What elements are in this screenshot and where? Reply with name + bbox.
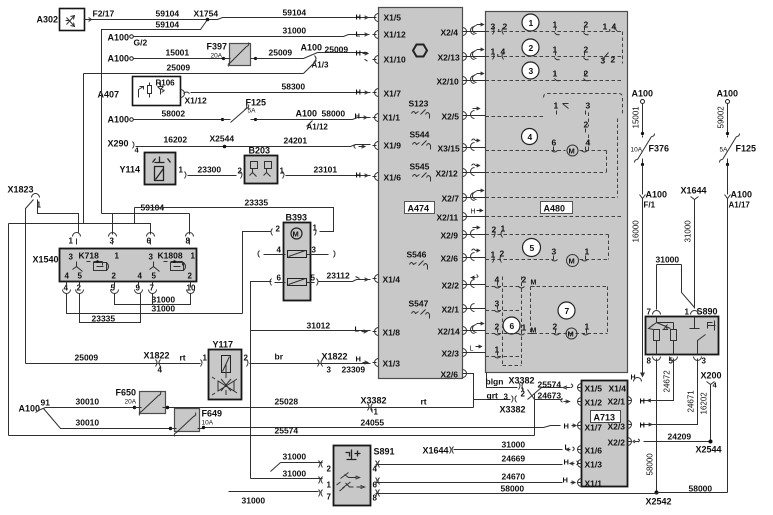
function circle 6 (503, 317, 520, 334)
svg-text:3: 3 (149, 253, 154, 262)
dashed row X2/7 (486, 119, 618, 198)
svg-text:58002: 58002 (162, 109, 186, 119)
svg-text:2: 2 (529, 43, 534, 53)
wire 25028/rt row (168, 400, 474, 408)
svg-text:G/2: G/2 (134, 38, 148, 48)
wire A100 A1/17 (727, 165, 729, 195)
svg-text:X2/10: X2/10 (437, 77, 459, 87)
svg-text:6: 6 (277, 274, 282, 283)
pin X2/4 (441, 28, 469, 38)
pin X1/3 (373, 359, 401, 369)
wire 30010 a (46, 407, 135, 409)
svg-text:59002: 59002 (717, 106, 726, 129)
row 6a (486, 286, 522, 288)
wire 15001 (134, 58, 224, 60)
svg-text:L: L (355, 325, 360, 334)
contact symbols (337, 473, 365, 492)
svg-text:F397: F397 (207, 42, 228, 52)
svg-text:grt: grt (487, 391, 499, 401)
pin X2/9 (441, 231, 469, 241)
dashed row 3 (486, 80, 623, 82)
module A302 (37, 9, 85, 31)
svg-text:24669: 24669 (502, 454, 526, 464)
wire 59104 to X1/5 (91, 18, 376, 20)
svg-text:A100: A100 (301, 43, 323, 53)
svg-text:H: H (356, 88, 361, 97)
wire 58000 bottom row (376, 493, 657, 495)
svg-text:X1/7: X1/7 (585, 423, 603, 433)
X2/2 out symbol (633, 439, 640, 443)
svg-text:X2/3: X2/3 (442, 349, 460, 359)
svg-text:X1/5: X1/5 (585, 384, 603, 394)
connector X3382 pin3 (512, 396, 517, 403)
motor M4 (567, 145, 578, 156)
svg-text:3: 3 (552, 247, 557, 257)
svg-text:24672: 24672 (663, 370, 672, 393)
svg-text:5: 5 (152, 272, 157, 281)
row 5 top (486, 235, 609, 260)
svg-text:X2/2: X2/2 (608, 438, 626, 448)
svg-text:31000: 31000 (656, 255, 680, 265)
arrow X1/2 (561, 398, 570, 403)
svg-text:X3382: X3382 (500, 405, 526, 415)
fuse F649 (175, 409, 223, 432)
svg-text:X2/3: X2/3 (608, 422, 626, 432)
wire 25574 long row (9, 435, 535, 437)
wire 30010 b (44, 409, 171, 429)
svg-text:6: 6 (552, 138, 557, 148)
svg-text:24670: 24670 (502, 472, 526, 482)
svg-text:31000: 31000 (242, 496, 266, 506)
pin X1/7 (373, 89, 402, 99)
svg-text:X1822: X1822 (322, 352, 348, 362)
svg-text:rt: rt (180, 353, 186, 363)
svg-text:L: L (356, 30, 361, 39)
svg-text:15001: 15001 (632, 106, 641, 129)
svg-text:2: 2 (521, 390, 526, 399)
resistor right (671, 330, 677, 341)
pin X2/11 (437, 213, 469, 223)
svg-text:X1823: X1823 (8, 185, 34, 195)
svg-text:H: H (356, 49, 361, 58)
svg-text:16202: 16202 (164, 135, 188, 145)
svg-text:F650: F650 (116, 388, 137, 398)
function circle 5 (523, 239, 541, 257)
svg-text:F125: F125 (736, 144, 757, 154)
svg-text:H: H (356, 355, 361, 364)
svg-text:2: 2 (522, 275, 527, 285)
svg-text:23335: 23335 (245, 198, 269, 208)
svg-text:X1754: X1754 (194, 9, 219, 19)
svg-text:F649: F649 (202, 409, 223, 419)
frame line left (9, 208, 151, 436)
svg-text:1: 1 (685, 308, 690, 317)
svg-text:X2544: X2544 (696, 445, 722, 455)
svg-text:A100: A100 (646, 190, 668, 200)
pin X2/10 (437, 77, 469, 87)
wire 24672 pin5 (641, 359, 674, 401)
svg-text:16202: 16202 (700, 392, 709, 415)
dashed row 1 (486, 31, 623, 33)
pin X2/8 (441, 370, 469, 380)
svg-text:X2/7: X2/7 (442, 194, 460, 204)
valve Y117 (209, 340, 242, 400)
svg-text:X1540: X1540 (33, 255, 59, 265)
wire X1823 down (26, 200, 79, 364)
switch S123 (409, 99, 430, 119)
svg-text:4: 4 (586, 138, 591, 148)
pin X2/7 (442, 194, 469, 204)
svg-text:59104: 59104 (156, 20, 180, 30)
wire blgn from A480 (487, 373, 518, 388)
svg-text:A1/3: A1/3 (312, 61, 329, 70)
wire X2/9-A480 (469, 226, 486, 238)
svg-text:B393: B393 (286, 213, 308, 223)
svg-text:S546: S546 (407, 250, 427, 260)
svg-text:H: H (640, 421, 645, 430)
svg-text:25009: 25009 (167, 63, 191, 73)
svg-text:7: 7 (647, 308, 652, 317)
wire 58000 bottom (657, 492, 728, 494)
svg-text:A407: A407 (98, 90, 120, 100)
wire X2/14-A480 (469, 322, 486, 334)
svg-text:1: 1 (603, 22, 608, 32)
svg-text:Y114: Y114 (120, 165, 141, 175)
svg-text:25009: 25009 (75, 353, 99, 363)
svg-text:4: 4 (138, 272, 143, 281)
svg-text:K718: K718 (79, 251, 100, 261)
switch S545 (410, 162, 431, 182)
svg-text:A100: A100 (108, 33, 130, 43)
svg-text:X200: X200 (701, 371, 722, 381)
svg-text:4: 4 (501, 47, 506, 57)
svg-text:F/1: F/1 (644, 201, 656, 210)
wire 23112 to X1/4 (319, 280, 371, 282)
svg-text:X1/9: X1/9 (384, 141, 402, 151)
svg-text:25028: 25028 (275, 397, 299, 407)
pin X1/4 (373, 275, 401, 285)
pin X2/5 (442, 112, 469, 122)
wire X2/10-A480 (469, 72, 486, 84)
svg-text:25574: 25574 (275, 426, 299, 436)
row 6d (486, 356, 522, 358)
svg-text:10A: 10A (631, 147, 643, 154)
fuse F397 symbol (224, 43, 256, 67)
wire grt from A474 X2/8 (469, 374, 511, 400)
svg-text:58000: 58000 (689, 484, 713, 494)
function circle 3 (522, 62, 539, 79)
svg-text:3: 3 (491, 22, 496, 32)
wire X3/15-A480 (469, 139, 486, 151)
wire 59104 branch (102, 20, 208, 214)
svg-text:3: 3 (586, 101, 591, 111)
svg-text:X2/13: X2/13 (438, 53, 460, 63)
svg-text:X2/5: X2/5 (442, 112, 460, 122)
svg-text:H: H (355, 112, 360, 121)
svg-text:H: H (563, 476, 568, 485)
svg-text:31000: 31000 (684, 220, 693, 243)
wire 23101 to X1/6 (286, 175, 371, 177)
svg-text:31012: 31012 (307, 321, 331, 331)
wire 59104 vertical (102, 214, 190, 235)
wire 24209 (644, 441, 711, 443)
wire 31000 to X1/12 (134, 35, 370, 37)
wire 24673 to X1/2 (528, 394, 563, 400)
svg-text:23101: 23101 (314, 165, 338, 175)
svg-text:A100: A100 (108, 115, 130, 125)
wire X2/2-A480 (469, 275, 486, 288)
function 6 dashed frame (503, 277, 522, 366)
svg-text:X1/3: X1/3 (585, 460, 603, 470)
svg-text:4: 4 (65, 272, 70, 281)
wire 23335 B393 (135, 208, 334, 232)
svg-text:3: 3 (702, 357, 707, 366)
wire A100 F/1 (642, 165, 644, 195)
svg-text:X1/12: X1/12 (384, 30, 406, 40)
wire 58000 right vertical (727, 199, 729, 493)
svg-text:1: 1 (115, 252, 120, 261)
wire X2/1-A480 (469, 304, 486, 312)
pin X2/1 (442, 305, 469, 315)
blower B393 (284, 213, 311, 301)
wire 25574 to X1/5 (528, 388, 563, 400)
svg-text:X2/1: X2/1 (608, 397, 626, 407)
pin X2/13 (438, 53, 469, 63)
control unit A474 (379, 8, 463, 379)
wire 24669 to X1/3 (376, 464, 563, 466)
svg-text:A100: A100 (108, 54, 130, 64)
svg-text:59104: 59104 (156, 9, 180, 19)
splice X2542 (655, 491, 659, 495)
arrow X1/4 (356, 277, 369, 282)
wire 31000 a (115, 294, 191, 305)
svg-text:S544: S544 (410, 130, 430, 140)
wire X2/12-A480 (469, 164, 486, 176)
wire X2/4-A480 (469, 23, 486, 35)
control unit A713 (582, 381, 628, 487)
svg-text:X1/6: X1/6 (585, 446, 603, 456)
wire 16202 X200 (710, 385, 712, 442)
wire 31012 to X1/8 (251, 330, 371, 332)
svg-text:25574: 25574 (538, 380, 562, 390)
svg-text:H: H (564, 458, 569, 467)
pin X1/10 (373, 55, 406, 65)
svg-text:1: 1 (374, 408, 379, 417)
svg-text:X1/12: X1/12 (185, 96, 207, 106)
function circle 2 (522, 39, 539, 56)
svg-text:L: L (470, 346, 474, 353)
switch S544 (410, 130, 431, 150)
seat icon (346, 450, 361, 460)
svg-text:H: H (471, 209, 476, 216)
svg-text:M: M (531, 280, 537, 287)
valve Y114 (120, 153, 176, 185)
svg-text:25009: 25009 (269, 48, 293, 58)
svg-text:H: H (356, 13, 361, 22)
svg-text:X2/14: X2/14 (438, 327, 460, 337)
svg-text:3: 3 (504, 393, 509, 402)
wire 31000 S891 pin2 (251, 331, 323, 479)
svg-text:M: M (568, 330, 574, 339)
motor M (291, 228, 302, 239)
switch S547 (409, 299, 430, 319)
svg-text:1: 1 (491, 47, 496, 57)
svg-text:Y117: Y117 (213, 340, 234, 350)
svg-text:2: 2 (276, 225, 281, 234)
svg-text:24209: 24209 (668, 432, 692, 442)
svg-text:91: 91 (41, 398, 51, 408)
motor M7 (566, 328, 577, 339)
wire X2/6-A480 (469, 249, 486, 261)
svg-text:4: 4 (528, 132, 533, 142)
svg-text:X290: X290 (108, 139, 129, 149)
pin X1/8 (373, 328, 401, 338)
svg-text:1: 1 (554, 101, 559, 111)
module A407 / R106 (98, 77, 181, 106)
svg-text:30010: 30010 (76, 397, 100, 407)
pin X3/15 (438, 144, 469, 154)
svg-text:1: 1 (69, 237, 74, 246)
svg-text:31000: 31000 (283, 469, 307, 479)
pin X1/12 (373, 30, 406, 40)
svg-text:3: 3 (529, 66, 534, 76)
svg-text:20A: 20A (125, 399, 137, 406)
relay contacts (649, 317, 671, 330)
dashed row 2 (486, 32, 623, 64)
svg-text:1: 1 (327, 481, 332, 490)
svg-text:24671: 24671 (687, 390, 696, 413)
svg-text:A480: A480 (544, 204, 566, 214)
svg-text:1: 1 (522, 323, 527, 333)
wire X2/5-A480 (469, 107, 486, 119)
fuse F649 symbol (171, 413, 204, 437)
wire pin7 down (152, 294, 154, 305)
wire br X1822 row (250, 363, 371, 365)
wire 25009 lower (84, 61, 317, 224)
svg-text:H: H (564, 422, 569, 431)
svg-text:31000: 31000 (283, 26, 307, 36)
svg-text:2: 2 (188, 272, 193, 281)
svg-text:br: br (275, 352, 284, 362)
svg-text:X1644: X1644 (681, 186, 707, 196)
svg-text:2: 2 (503, 22, 508, 32)
svg-text:23309: 23309 (342, 365, 366, 375)
svg-text:S547: S547 (409, 299, 429, 309)
svg-text:5: 5 (311, 274, 316, 283)
fuse F650 symbol (135, 392, 168, 416)
svg-text:M: M (569, 257, 575, 266)
row 6b (486, 310, 522, 312)
pin X2/14 (438, 327, 469, 337)
wire 31000 X1644 down (694, 200, 696, 309)
svg-text:1: 1 (179, 166, 184, 175)
svg-text:A100: A100 (731, 190, 753, 200)
svg-text:F376: F376 (649, 144, 670, 154)
wire 16000 (642, 199, 644, 369)
svg-text:1: 1 (491, 250, 496, 260)
svg-text:A474: A474 (408, 204, 430, 214)
fuse F650 (116, 388, 166, 414)
svg-text:X3/15: X3/15 (438, 144, 460, 154)
row 5 bottom (486, 259, 609, 261)
wire 23335 b (80, 294, 141, 323)
svg-text:10A: 10A (202, 420, 214, 427)
pin X2/3 (442, 349, 469, 359)
wire X2/3-A480 (469, 345, 486, 353)
wire 23300 (188, 175, 237, 177)
pin X1/1 (373, 113, 401, 123)
svg-text:X2/2: X2/2 (442, 281, 460, 291)
svg-text:3: 3 (327, 366, 332, 375)
svg-text:X1/10: X1/10 (384, 55, 406, 65)
wire 24671 pin3 (641, 359, 698, 425)
switch S891 (334, 446, 395, 506)
svg-text:X2/6: X2/6 (441, 370, 459, 380)
switch right (690, 317, 716, 355)
wire 16202/24201 to X1/9 (136, 145, 371, 147)
svg-text:5: 5 (530, 243, 535, 253)
wire X2/7-A480 (469, 189, 486, 201)
svg-text:,: , (498, 23, 500, 33)
Y117 interior (222, 356, 231, 373)
wire 31000 b (67, 294, 243, 314)
svg-text:2: 2 (492, 225, 497, 235)
svg-text:X3382: X3382 (509, 376, 535, 386)
svg-text:X2544: X2544 (210, 134, 235, 144)
svg-text:X2/9: X2/9 (441, 231, 459, 241)
function circle 4 (522, 129, 538, 145)
svg-text:23300: 23300 (198, 165, 222, 175)
dashed row X2/11 (486, 216, 623, 218)
svg-text:58000: 58000 (501, 484, 525, 494)
motor row 4 (486, 151, 607, 173)
svg-text:X1/8: X1/8 (383, 328, 401, 338)
svg-text:X1/3: X1/3 (383, 359, 401, 369)
svg-text:31000: 31000 (283, 452, 307, 462)
arrow X1/5 (563, 384, 573, 389)
svg-text:58000: 58000 (646, 453, 655, 476)
R106 pin X1/12 (181, 90, 190, 98)
window icon (413, 45, 427, 57)
svg-text:3: 3 (69, 253, 74, 262)
svg-text:A100: A100 (717, 89, 739, 99)
svg-text:6: 6 (510, 321, 515, 331)
svg-text:X2/6: X2/6 (441, 254, 459, 264)
svg-text:X1/1: X1/1 (585, 479, 603, 489)
svg-text:H: H (356, 171, 361, 180)
pin X2/6 (441, 254, 469, 264)
svg-text:K1808: K1808 (158, 251, 183, 261)
function circle 1 (522, 14, 539, 31)
svg-text:1: 1 (191, 252, 196, 261)
wire 24670 to X1/1 (376, 482, 563, 484)
svg-text:X1/2: X1/2 (585, 398, 603, 408)
svg-text:X1644: X1644 (423, 446, 449, 456)
function 4 dashed block (486, 94, 623, 151)
svg-text:1: 1 (313, 224, 318, 233)
svg-text:16000: 16000 (632, 220, 641, 243)
pin X2/12 (436, 169, 469, 179)
wire 24055 row (204, 426, 561, 428)
svg-text:rt: rt (421, 397, 427, 407)
wire 25009 to X1/10 (256, 53, 368, 59)
wire pin2 left (243, 232, 271, 314)
svg-text:A302: A302 (37, 15, 59, 25)
svg-text:24673: 24673 (538, 391, 562, 401)
wire 25574 long vertical (534, 394, 536, 436)
relay box X1540 (33, 249, 197, 282)
svg-text:31000: 31000 (152, 304, 176, 314)
